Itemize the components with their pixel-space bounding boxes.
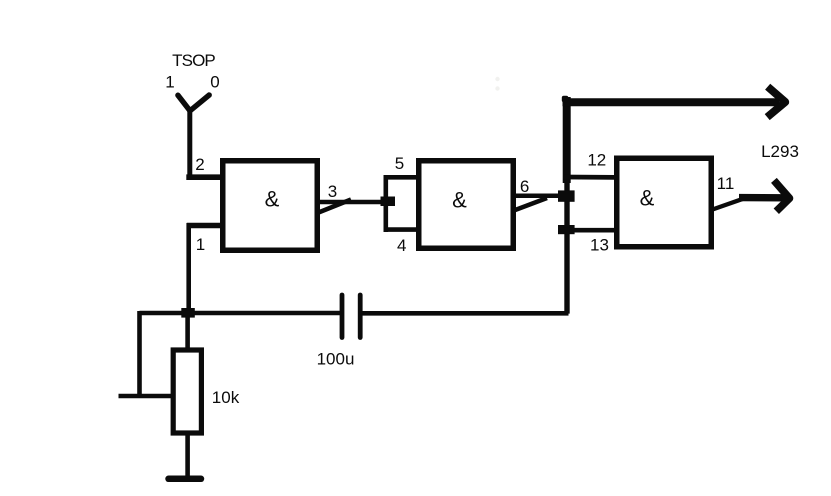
capacitor C1 left plate	[340, 295, 345, 338]
svg-text:3: 3	[328, 182, 337, 201]
svg-text:6: 6	[520, 177, 529, 196]
wire: pin 13 input	[563, 228, 615, 233]
ground GND bar	[169, 476, 202, 483]
wire: pin 2 input	[186, 174, 222, 180]
resistor R1 body	[173, 350, 201, 433]
wire: node A to resistor top	[185, 315, 190, 350]
corner overshoot bump	[562, 96, 569, 103]
junction: node A (pin1 / resistor / cap)	[181, 308, 195, 318]
svg-text:2: 2	[195, 155, 204, 174]
svg-text:0: 0	[210, 73, 219, 92]
wire: riser (thin lower part)	[564, 178, 569, 314]
svg-text:&: &	[640, 186, 655, 211]
wire: resistor tap stub	[119, 394, 172, 399]
wire: output 3 horizontal	[317, 200, 384, 205]
NAND gate U2	[419, 161, 514, 249]
junction: pin13 / riser	[558, 225, 575, 234]
antenna fork (TSOP input)	[178, 95, 209, 111]
wire: resistor bottom lead	[185, 433, 190, 478]
svg-text:11: 11	[717, 174, 735, 193]
arrow: top output head	[770, 89, 785, 114]
arrow: output 11 shaft	[739, 194, 785, 202]
wire: antenna stem	[187, 108, 192, 177]
svg-text:100u: 100u	[317, 350, 355, 369]
junction: output6 / riser	[558, 190, 575, 201]
wire: riser thick upper part	[563, 97, 571, 183]
capacitor C1 right plate	[358, 295, 363, 338]
output 11 diagonal tick	[713, 199, 744, 210]
wire: left drop	[137, 311, 142, 396]
tie loop joining pins 5 and 4	[386, 175, 418, 232]
svg-text:5: 5	[395, 154, 404, 173]
svg-text:L293: L293	[761, 142, 799, 161]
svg-text:12: 12	[587, 151, 606, 170]
svg-text:4: 4	[397, 236, 406, 255]
svg-text:13: 13	[590, 236, 609, 255]
arrow: top output shaft	[563, 98, 780, 106]
faint erased smudge	[495, 77, 499, 91]
arrow: output 11 head	[776, 183, 789, 208]
svg-text:1: 1	[165, 73, 174, 92]
wire: node A left segment	[140, 311, 189, 316]
output 3 diagonal tick	[319, 200, 352, 213]
svg-text:1: 1	[196, 235, 205, 254]
NAND gate U3	[617, 158, 712, 247]
svg-text:&: &	[452, 188, 467, 213]
svg-text:TSOP: TSOP	[172, 51, 215, 70]
wire: output 6 horizontal	[513, 193, 561, 198]
output 6 diagonal tick	[513, 198, 548, 211]
wire: pin1 drop to node A	[186, 223, 191, 313]
NAND gate U1	[223, 161, 318, 251]
svg-text:10k: 10k	[212, 388, 240, 407]
wire: capacitor to riser	[363, 311, 569, 316]
wire: node A to capacitor	[187, 311, 341, 316]
junction: output3 to tie loop	[381, 197, 396, 207]
wire: pin 12 input	[563, 175, 615, 180]
wire: pin 1 input	[187, 223, 222, 229]
svg-text:&: &	[265, 187, 280, 212]
